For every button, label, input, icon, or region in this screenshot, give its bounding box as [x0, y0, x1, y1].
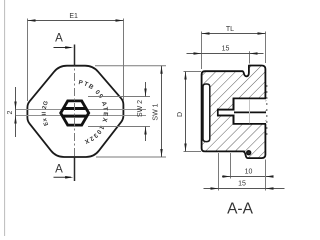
thread ticks right edge: [266, 86, 267, 134]
svg-text:15: 15: [222, 46, 230, 53]
svg-text:15: 15: [238, 181, 246, 188]
dimension SW 2: [88, 82, 150, 141]
svg-text:SW 2: SW 2: [137, 100, 144, 117]
label A bottom: [55, 164, 63, 176]
dimension E1: [28, 13, 124, 101]
svg-text:A-A: A-A: [227, 201, 254, 218]
svg-text:A: A: [55, 164, 63, 176]
dimension 15 bottom: [204, 153, 285, 191]
hex socket: [58, 101, 91, 125]
arc text left marking: [42, 100, 50, 127]
hex socket cavity (section): [233, 98, 266, 124]
slot line lower (front view): [16, 115, 146, 117]
slot line upper (front view): [16, 109, 146, 111]
svg-text:TL: TL: [226, 26, 234, 33]
slot tab (section): [218, 109, 235, 117]
hex far corner line in cavity: [249, 99, 251, 123]
dimension SW 1: [95, 66, 166, 157]
svg-text:Ex II 2G: Ex II 2G: [42, 100, 50, 127]
centerline vertical (front view): [74, 58, 76, 166]
svg-text:A: A: [55, 33, 63, 45]
membrane disc: [203, 84, 210, 142]
bottom ear circle: [247, 151, 251, 155]
slot far edge line through cavity: [234, 111, 266, 113]
section A-A hatching: [202, 66, 267, 159]
knob outline (front view octagon): [27, 66, 123, 157]
border frame left margin line: [4, 0, 6, 236]
dimension 15 top: [187, 46, 264, 64]
arc text PTB 09 ATEX 1032X: [78, 79, 109, 145]
dimension TL: [202, 26, 266, 69]
dimension 10 bottom: [222, 153, 274, 179]
section line A top: [54, 45, 75, 67]
svg-text:10: 10: [245, 169, 253, 176]
label A top: [55, 33, 63, 45]
dimension 2 (slot width): [7, 87, 17, 137]
dimension D: [177, 72, 201, 152]
label A-A: [227, 201, 254, 218]
svg-text:E1: E1: [69, 13, 78, 20]
svg-text:2: 2: [7, 111, 14, 115]
section line A bottom: [54, 157, 75, 181]
svg-text:SW 1: SW 1: [153, 103, 160, 120]
svg-text:D: D: [177, 112, 184, 117]
section outline: [202, 66, 266, 159]
